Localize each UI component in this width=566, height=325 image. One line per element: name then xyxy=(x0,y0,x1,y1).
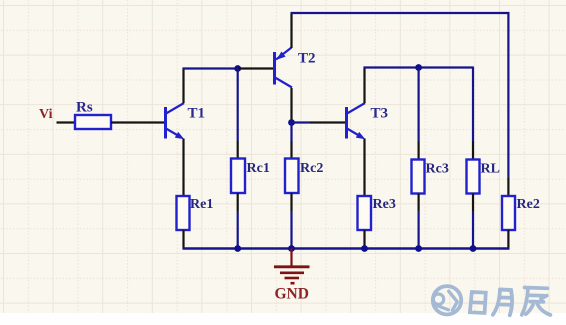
junction dot bottom Rc1 xyxy=(234,245,241,252)
wire Re3 bottom pin xyxy=(363,230,365,249)
wire Re1 bottom pin xyxy=(182,230,184,249)
wire Rc3 to bottom rail (navy) xyxy=(418,211,420,249)
junction dot bottom Re3 xyxy=(361,245,368,252)
wire T1 collector pin up xyxy=(182,68,184,104)
ground GND symbol xyxy=(274,249,310,284)
svg-text:Rc3: Rc3 xyxy=(426,162,449,177)
svg-text:RL: RL xyxy=(481,162,500,177)
transistor T1 xyxy=(166,103,185,139)
wire top rail (navy) xyxy=(291,13,509,178)
label Rc1 value xyxy=(247,161,270,176)
wire Rc3 top pin xyxy=(418,141,420,160)
svg-text:T3: T3 xyxy=(371,106,389,122)
resistor Rc1 xyxy=(231,159,245,194)
svg-text:GND: GND xyxy=(275,286,309,303)
label T2 xyxy=(298,51,316,67)
wire Rc2 top pin xyxy=(290,141,292,159)
svg-text:Rc1: Rc1 xyxy=(247,161,270,176)
svg-text:Re3: Re3 xyxy=(373,197,396,212)
wire Rc1 to bottom rail (navy) xyxy=(237,211,239,249)
label Rc2 value xyxy=(300,161,323,176)
wire junction down to Rc1 (navy) xyxy=(237,69,239,142)
wire Rc3 bottom pin xyxy=(418,194,420,212)
svg-text:T2: T2 xyxy=(298,51,316,67)
resistor Re3 xyxy=(358,196,372,230)
wire T2 collector pin down xyxy=(290,88,292,123)
wire RL to bottom rail (navy) xyxy=(472,211,474,249)
resistor Re1 xyxy=(177,196,190,230)
label Re3 value xyxy=(373,197,396,212)
wire Vi input stub xyxy=(57,121,76,123)
svg-text:Rs: Rs xyxy=(76,100,93,116)
wire Rc2 bottom pin xyxy=(290,193,292,211)
watermark character chen xyxy=(522,288,551,315)
junction dot above Rc3 xyxy=(415,64,422,71)
resistor Rc3 xyxy=(412,160,425,194)
wire node down to Rc2 (navy) xyxy=(290,123,292,142)
label Re1 value xyxy=(190,197,213,212)
junction dot T2 collector node xyxy=(288,119,295,126)
label RL value xyxy=(481,162,500,177)
white strip bottom xyxy=(0,313,566,325)
svg-text:Re1: Re1 xyxy=(190,197,213,212)
svg-text:Re2: Re2 xyxy=(517,197,540,212)
wire T2 emitter pin up xyxy=(290,13,292,48)
transistor T2 xyxy=(275,48,293,88)
svg-text:T1: T1 xyxy=(188,106,206,122)
label Re2 value xyxy=(517,197,540,212)
wire T3 collector pin up xyxy=(363,67,365,104)
resistor Rc2 xyxy=(285,159,299,194)
wire T1 emitter pin down xyxy=(182,139,184,197)
label T3 xyxy=(371,106,389,122)
wire junction down to Rc3 (navy) xyxy=(418,68,420,142)
wire Re2 top pin xyxy=(507,178,509,196)
label GND xyxy=(275,286,309,303)
wire Rc2 to bottom rail (navy) xyxy=(290,211,292,249)
wire RL bottom pin xyxy=(472,194,474,212)
wire node to T3 base (navy) xyxy=(292,121,311,123)
wire Rc1 bottom pin xyxy=(237,193,239,211)
junction dot bottom Rc3 xyxy=(415,245,422,252)
wire T2 base pin xyxy=(238,67,274,69)
watermark character yue xyxy=(493,290,512,316)
resistor Rs xyxy=(75,115,111,129)
wire Rc1 top pin xyxy=(237,141,239,159)
wire bottom rail (navy) xyxy=(183,247,510,249)
transistor T3 xyxy=(347,103,366,139)
svg-text:Vi: Vi xyxy=(39,107,53,122)
resistor RL xyxy=(467,160,480,194)
wire Re2 bottom pin xyxy=(507,230,509,250)
wire rail B down to RL (navy) xyxy=(472,67,474,142)
node Vi label xyxy=(39,107,53,122)
wire rail B (navy) xyxy=(364,66,474,68)
wire T3 base pin xyxy=(310,121,346,123)
resistor Re2 xyxy=(502,196,515,230)
watermark character ri xyxy=(470,292,486,313)
wire rail T1 collector to junction (navy) xyxy=(183,67,239,69)
label T1 xyxy=(188,106,206,122)
wire RL top pin xyxy=(472,141,474,160)
junction dot bottom Rc2/GND xyxy=(288,245,295,252)
wire Rs to T1 base xyxy=(111,121,165,123)
wire T3 emitter pin down xyxy=(363,139,365,197)
junction dot above Rc1 xyxy=(234,65,241,72)
label Rc3 value xyxy=(426,162,449,177)
label Rs value xyxy=(76,100,93,116)
watermark logo circle xyxy=(433,286,461,314)
junction dot bottom RL xyxy=(470,245,477,252)
svg-text:Rc2: Rc2 xyxy=(300,161,323,176)
